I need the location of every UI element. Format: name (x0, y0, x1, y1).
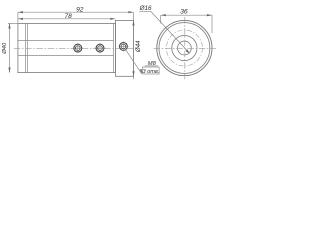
leader M8 (126, 50, 142, 74)
end view centerline horizontal (154, 47, 216, 49)
dimension 92 arrow right (128, 11, 133, 13)
dimension 36 arrow left (161, 14, 166, 16)
top edge extension stub (8, 22, 18, 24)
label D16 underline (139, 10, 150, 12)
end view outer circle D44 (157, 20, 212, 75)
hole M8 no.2 (95, 43, 105, 53)
right chamfer line (113, 23, 115, 72)
svg-text:М8: М8 (148, 61, 157, 67)
left groove line 2 (27, 23, 29, 72)
end view bolt circle (dash-dot) (166, 30, 202, 66)
dimension 92 arrow left (18, 11, 23, 13)
shelf line under M8 (145, 65, 158, 67)
dimension D44 arrow top (132, 20, 134, 25)
svg-text:36: 36 (180, 9, 188, 16)
flange outline (115, 20, 133, 76)
hole M8 no.3 on flange (118, 41, 128, 51)
frame for 3 holes note (143, 67, 160, 74)
label D16 leader arrow (186, 49, 190, 53)
left groove line 1 (25, 23, 27, 72)
side view body outline (18, 23, 116, 72)
dimension 78 extension (left face up) (17, 12, 19, 23)
svg-text:92: 92 (76, 6, 84, 13)
dimension D40 arrow top (8, 23, 10, 28)
bore line bottom (18, 55, 114, 57)
dimension 78 arrow right (110, 18, 115, 20)
dimension 92 line (18, 11, 134, 13)
dimension D40 arrow bottom (8, 68, 10, 73)
dimension 36 line (161, 14, 212, 16)
leader M8 arrow bottom (140, 69, 142, 74)
dimension 78 line (18, 18, 116, 20)
centerline of side view (14, 47, 137, 49)
label D16 leader (151, 11, 190, 53)
end view centerline vertical (184, 17, 186, 79)
svg-text:Ø40: Ø40 (2, 42, 8, 55)
end view circle bore chamfer (172, 35, 197, 60)
svg-text:Ø44: Ø44 (136, 40, 142, 53)
dimension D44 arrow bottom (132, 71, 134, 76)
svg-text:3 отв.: 3 отв. (142, 69, 159, 75)
dimension D40 line (9, 23, 11, 72)
dimension 36 extension right (211, 15, 213, 33)
end view circle D40 (159, 23, 210, 74)
dimension D44 line (at flange right face) (133, 13, 135, 80)
bore line top (18, 39, 114, 41)
svg-text:78: 78 (65, 13, 73, 20)
end view circle inner bore (178, 41, 192, 55)
dimension 78 arrow left (18, 18, 23, 20)
dimension 36 arrow right (207, 14, 212, 16)
hole M8 no.1 (73, 43, 83, 53)
dimension 36 extension left (160, 15, 162, 23)
